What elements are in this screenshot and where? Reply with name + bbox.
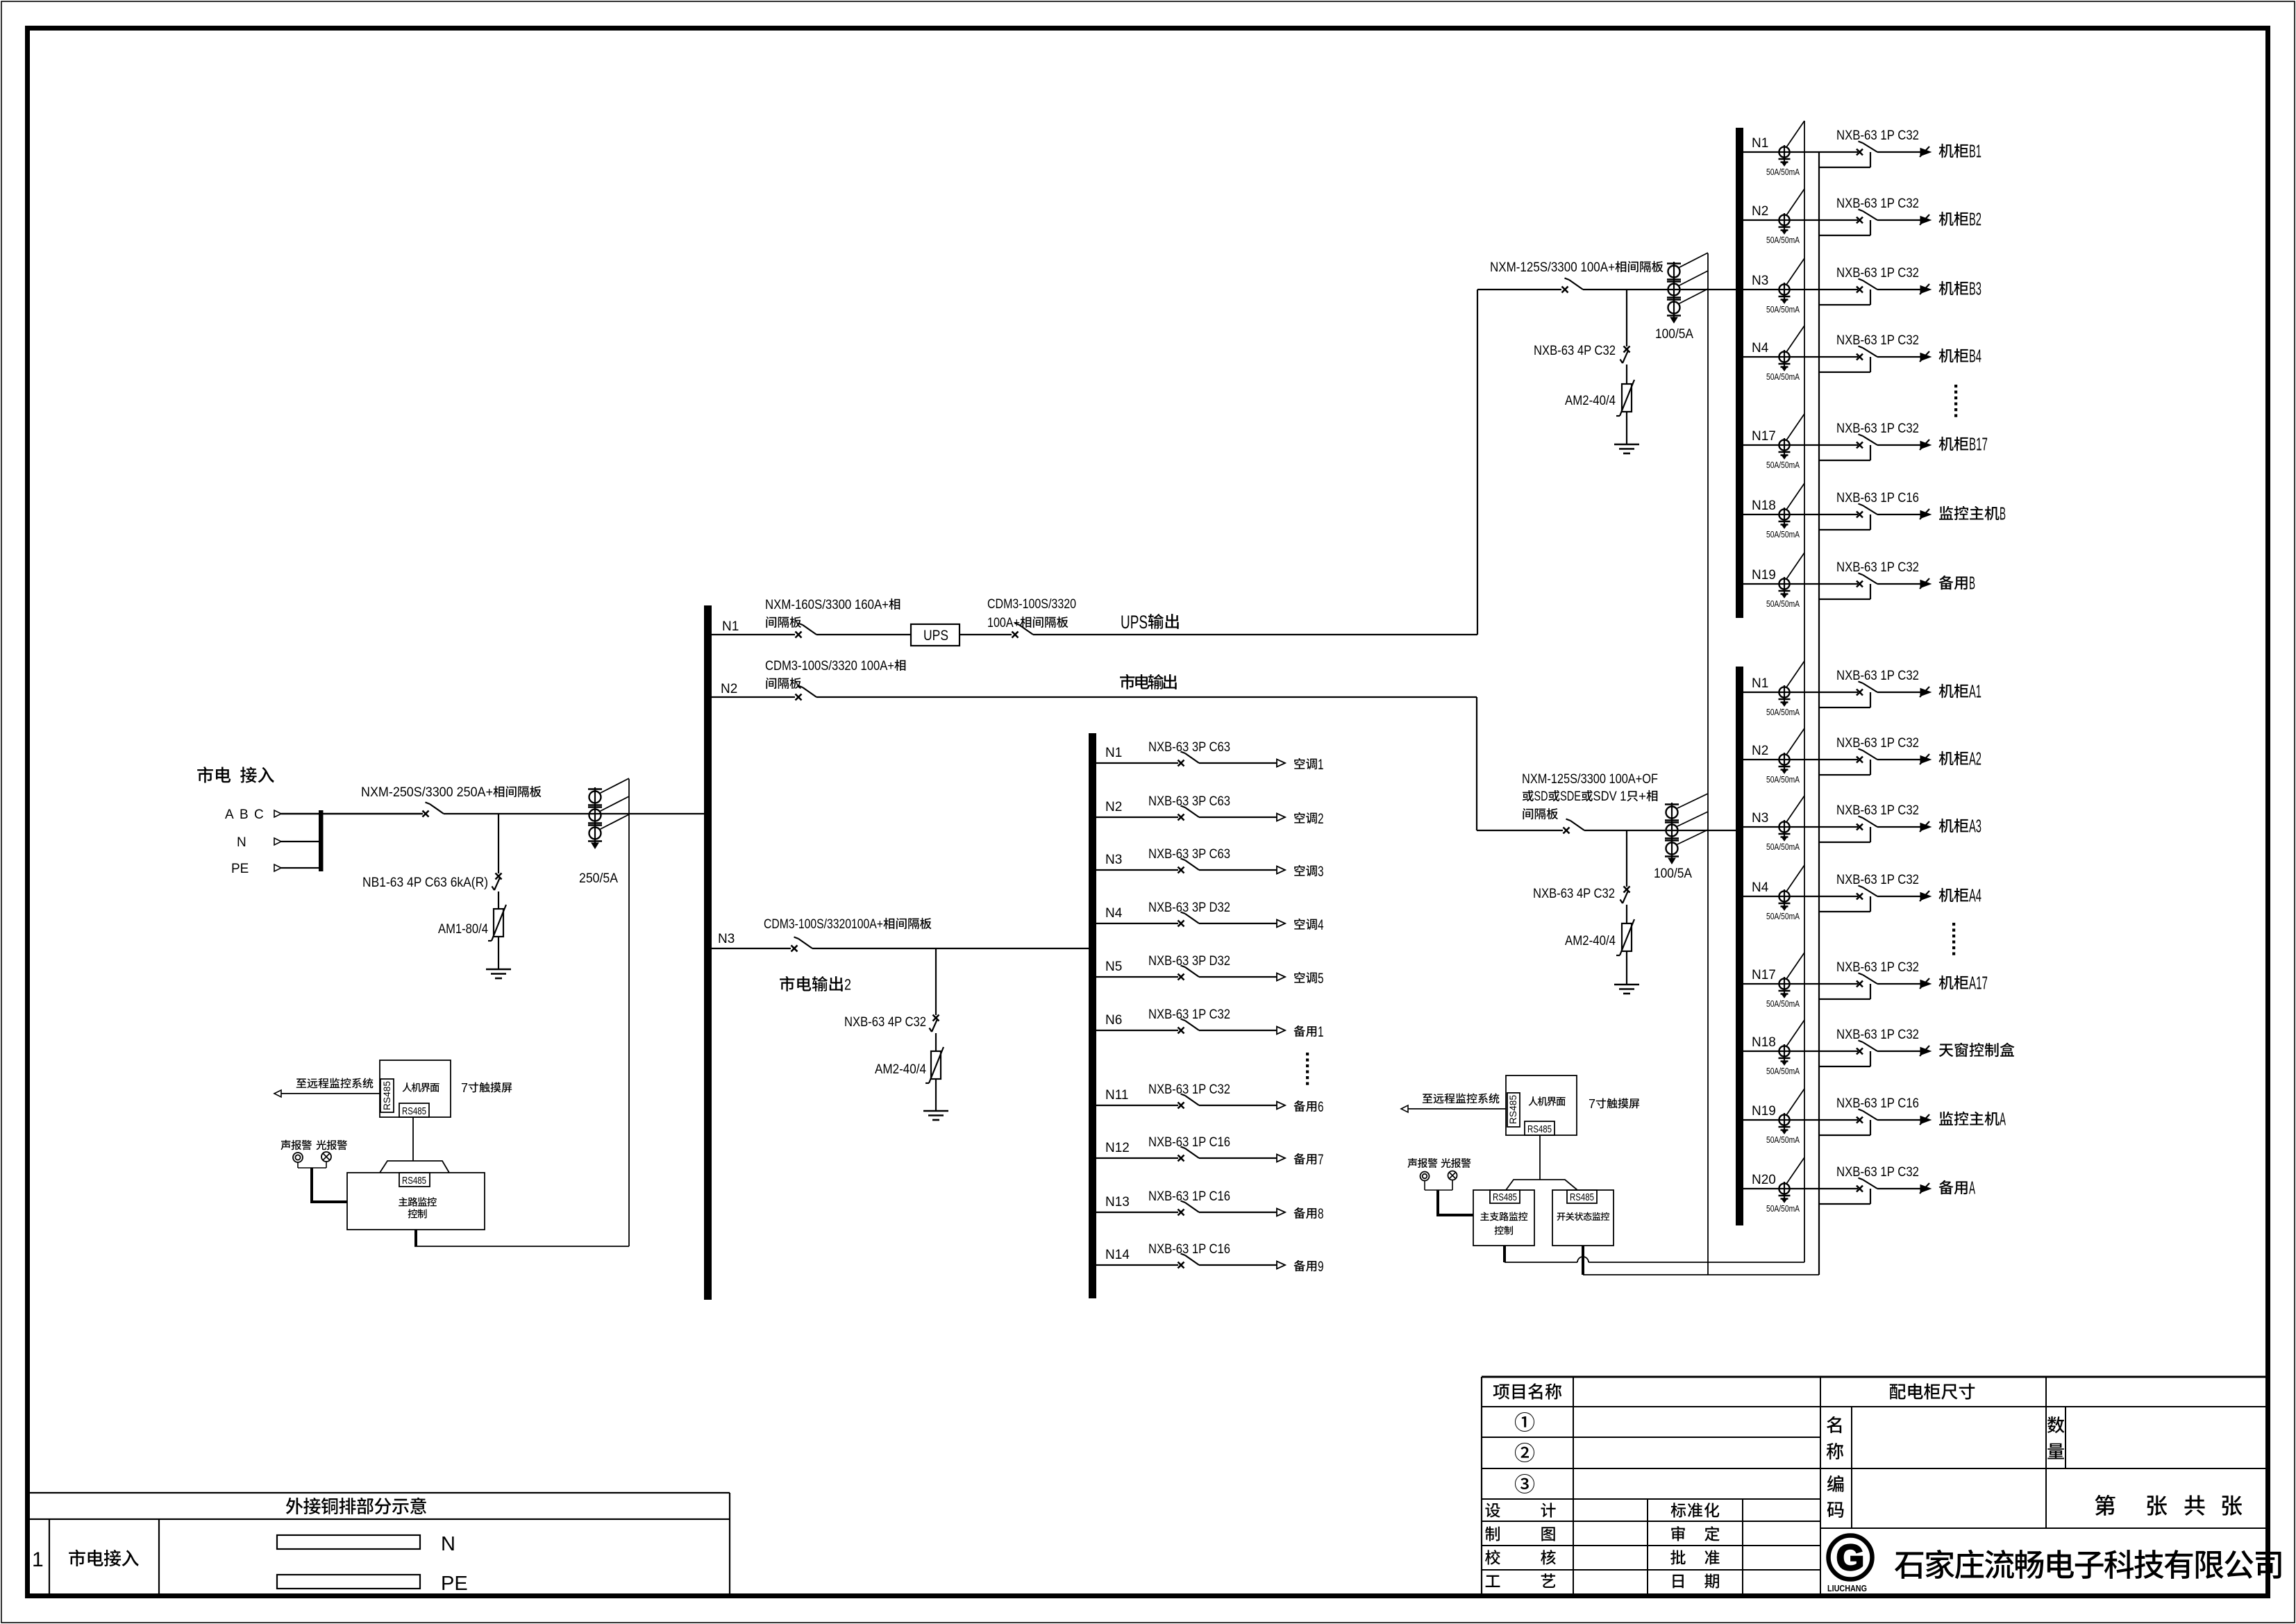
svg-text:N4: N4 [1752, 880, 1769, 895]
branch A N19 wire [1743, 1119, 1858, 1121]
wire B surge branch down [1626, 290, 1627, 346]
RCD sensor A N18 50A/50mA [1779, 1046, 1789, 1056]
svg-text:50A/50mA: 50A/50mA [1766, 1135, 1800, 1145]
svg-text:NXB-63 4P C32: NXB-63 4P C32 [1534, 344, 1616, 358]
svg-text:UPS: UPS [923, 628, 948, 644]
branch N4 mid wire [1096, 923, 1178, 924]
label 主路监控 [399, 1197, 408, 1206]
breaker B N1 NXB-63 1P C32 [1857, 149, 1863, 156]
svg-text:N12: N12 [1105, 1141, 1130, 1155]
breaker A N17 NXB-63 1P C32 [1857, 981, 1863, 987]
RCD sensor B N1 50A/50mA [1779, 147, 1789, 157]
branch N14 mid wire [1096, 1264, 1178, 1266]
svg-text:NXB-63 1P C32: NXB-63 1P C32 [1836, 560, 1919, 575]
svg-text:NXB-63 1P C32: NXB-63 1P C32 [1836, 736, 1919, 751]
neutral jog B N3 [1819, 304, 1870, 305]
breaker B N3 NXB-63 1P C32 [1857, 287, 1863, 293]
wire HMI down right [1539, 1135, 1541, 1180]
neutral jog B N17 [1819, 460, 1870, 461]
wire breaker to load N2 [1199, 817, 1277, 818]
breaker N2 mid NXB-63 3P C63 [1178, 814, 1184, 821]
load arrow B N3 [1920, 286, 1931, 294]
branch B N4 wire [1743, 356, 1858, 358]
alarm trunk wire right thick [1436, 1190, 1439, 1215]
wire arrester to ground A [1626, 951, 1627, 985]
branch A N18 wire [1743, 1050, 1858, 1052]
wire to arrester [498, 891, 499, 909]
light alarm symbol right [1448, 1171, 1457, 1180]
trip status vertical line [1804, 121, 1805, 1262]
svg-text:N1: N1 [1752, 136, 1768, 151]
load arrow N2 [1277, 814, 1285, 821]
label circled 3 [1515, 1474, 1534, 1493]
svg-text:A1: A1 [1969, 681, 1981, 702]
breaker NXB-63 4P C32 B [1624, 346, 1630, 353]
svg-text:B3: B3 [1969, 278, 1981, 299]
breaker A N1 NXB-63 1P C32 [1857, 689, 1863, 696]
RCD sensor B N19 50A/50mA [1779, 578, 1789, 589]
load arrow B N17 [1920, 442, 1931, 449]
wire breaker to load B N2 [1877, 219, 1920, 221]
svg-text:9: 9 [1318, 1259, 1324, 1275]
wire breaker to load B N18 [1877, 514, 1920, 515]
arrow to remote right [1401, 1105, 1408, 1112]
svg-text:50A/50mA: 50A/50mA [1766, 1066, 1800, 1076]
breaker A feed NXM-125S/3300 100A [1564, 828, 1570, 834]
branch A N17 wire [1743, 983, 1858, 985]
svg-text:A17: A17 [1969, 973, 1988, 994]
RS485 port vertical right [1507, 1093, 1520, 1127]
branch N3 mid wire [1096, 869, 1178, 871]
neutral jog B N19 [1819, 598, 1870, 600]
svg-text:NXM-125S/3300 100A+OF: NXM-125S/3300 100A+OF [1522, 772, 1658, 787]
RCD sensor B N18 50A/50mA [1779, 509, 1789, 519]
svg-text:N18: N18 [1752, 1035, 1776, 1050]
svg-text:100/5A: 100/5A [1655, 327, 1693, 342]
label 市电输出 [1120, 674, 1134, 689]
breaker A N4 NXB-63 1P C32 [1857, 894, 1863, 900]
ellipsis B bus [1954, 385, 1957, 387]
svg-text:50A/50mA: 50A/50mA [1766, 599, 1800, 609]
load arrow A N17 [1920, 980, 1931, 988]
sound alarm symbol right [1421, 1172, 1430, 1181]
label 控制 right [1495, 1225, 1504, 1234]
breaker N13 mid NXB-63 1P C16 [1178, 1209, 1184, 1216]
label 第 张 共 张 [2095, 1495, 2115, 1516]
branch A N20 wire [1743, 1188, 1858, 1189]
load arrow A N20 [1920, 1185, 1931, 1193]
wire breaker to load A N4 [1877, 896, 1920, 897]
svg-text:RS485: RS485 [381, 1081, 392, 1110]
svg-text:SD: SD [1534, 789, 1548, 804]
breaker NXB-63 4P C32 A [1624, 887, 1630, 893]
wire breaker to load N13 [1199, 1212, 1277, 1213]
ground mid surge [923, 1110, 948, 1112]
svg-text:NXB-63 4P C32: NXB-63 4P C32 [844, 1015, 926, 1030]
svg-text:NXB-63 1P C32: NXB-63 1P C32 [1148, 1007, 1230, 1022]
title block outer [1482, 1376, 2266, 1378]
RS485 port 开关状态 box [1567, 1190, 1597, 1203]
svg-text:AM1-80/4: AM1-80/4 [438, 922, 488, 937]
branch N13 mid wire [1096, 1212, 1178, 1213]
svg-text:N19: N19 [1752, 1104, 1776, 1119]
label load 备用A [1939, 1180, 1954, 1195]
connector trapezoid right [1506, 1180, 1577, 1190]
label 审定 [1671, 1526, 1684, 1541]
controller to CT monitor wire left [414, 1246, 629, 1247]
label load 机柜B1 [1939, 144, 1954, 158]
title block horizontals [1482, 1406, 2266, 1407]
svg-text:7: 7 [1318, 1152, 1324, 1168]
RCD sensor A N2 50A/50mA [1779, 754, 1789, 764]
breaker B N2 NXB-63 1P C32 [1857, 217, 1863, 224]
svg-text:A: A [2000, 1109, 2006, 1130]
alarm wires left [297, 1162, 299, 1168]
sound alarm symbol left [293, 1153, 303, 1162]
svg-text:N2: N2 [721, 682, 737, 696]
svg-text:N17: N17 [1752, 429, 1776, 444]
branch N12 mid wire [1096, 1157, 1178, 1159]
svg-text:50A/50mA: 50A/50mA [1766, 842, 1800, 852]
CT 100/5A A [1671, 803, 1673, 858]
alarm wires right [1424, 1180, 1425, 1190]
svg-text:NXM-125S/3300 100A+: NXM-125S/3300 100A+ [1490, 260, 1615, 275]
label 间隔板 N2 [766, 678, 776, 689]
breaker QF main NXM-250S/3300 250A [423, 811, 429, 817]
label 或SD或SDE或SDV 1只+相 [1523, 790, 1534, 801]
svg-text:50A/50mA: 50A/50mA [1766, 1204, 1800, 1214]
svg-text:A: A [225, 807, 234, 822]
svg-text:50A/50mA: 50A/50mA [1766, 167, 1800, 177]
load arrow N13 [1277, 1209, 1285, 1216]
wire mains output to riser [816, 696, 1477, 698]
RCD sensor A N20 50A/50mA [1779, 1183, 1789, 1194]
svg-text:RS485: RS485 [402, 1105, 426, 1117]
breaker N11 mid NXB-63 1P C32 [1178, 1103, 1184, 1109]
ellipsis mid bus [1306, 1053, 1309, 1055]
surge arrester AM1-80/4 [494, 909, 503, 937]
wire breaker to load A N19 [1877, 1119, 1920, 1121]
logo LIUCHANG circle [1829, 1536, 1872, 1580]
wire phase to breaker [281, 813, 423, 815]
svg-text:NXB-63 1P C32: NXB-63 1P C32 [1836, 1028, 1919, 1042]
input arrow PE [274, 864, 281, 871]
svg-text:NXB-63 1P C32: NXB-63 1P C32 [1836, 669, 1919, 683]
RCD sensor B N4 50A/50mA [1779, 351, 1789, 362]
load arrow A N18 [1920, 1048, 1931, 1055]
svg-text:50A/50mA: 50A/50mA [1766, 708, 1800, 717]
svg-text:AM2-40/4: AM2-40/4 [1565, 394, 1616, 408]
svg-text:N2: N2 [1752, 204, 1768, 219]
breaker N6 mid NXB-63 1P C32 [1178, 1028, 1184, 1034]
load arrow N3 [1277, 867, 1285, 874]
label 项目名称 [1493, 1384, 1510, 1399]
label 校核 [1485, 1550, 1500, 1565]
neutral vertical line [1818, 152, 1820, 1275]
svg-text:RS485: RS485 [1493, 1192, 1517, 1203]
breaker N1 mid NXB-63 3P C63 [1178, 760, 1184, 767]
RCD sensor A N17 50A/50mA [1779, 978, 1789, 989]
svg-text:RS485: RS485 [1507, 1095, 1518, 1124]
wire breaker to load B N3 [1877, 289, 1920, 290]
surge arrester AM2-40/4 A [1622, 923, 1632, 951]
svg-text:CDM3-100S/3320100A+: CDM3-100S/3320100A+ [764, 917, 883, 932]
svg-text:NXM-160S/3300 160A+: NXM-160S/3300 160A+ [765, 598, 889, 612]
wire breaker to load N1 [1199, 762, 1277, 764]
breaker N12 mid NXB-63 1P C16 [1178, 1155, 1184, 1162]
wire N to bus stub [281, 841, 319, 842]
svg-text:G: G [1836, 1538, 1864, 1578]
svg-text:NXB-63 1P C32: NXB-63 1P C32 [1836, 333, 1919, 348]
svg-text:NXB-63 3P D32: NXB-63 3P D32 [1148, 954, 1230, 969]
branch N11 mid wire [1096, 1105, 1178, 1106]
controller output stub left [414, 1230, 417, 1246]
busbar PE symbol [277, 1575, 420, 1589]
breaker B feed NXM-125S/3300 100A [1562, 287, 1568, 293]
input bus stub bar [319, 810, 324, 871]
svg-text:100A+: 100A+ [987, 616, 1020, 630]
svg-text:+: + [1639, 789, 1646, 804]
label 间隔板 N1 [766, 617, 776, 628]
svg-text:RS485: RS485 [1527, 1123, 1552, 1135]
surge arrester AM2-40/4 mid [931, 1051, 941, 1079]
RCD sensor B N3 50A/50mA [1779, 284, 1789, 294]
breaker N1 NXM-160S [796, 632, 802, 638]
branch N5 mid wire [1096, 976, 1178, 978]
label 名称 vertical [1827, 1416, 1841, 1433]
wire breaker to load B N4 [1877, 356, 1920, 358]
svg-text:50A/50mA: 50A/50mA [1766, 372, 1800, 382]
label 工艺 [1486, 1575, 1500, 1587]
neutral jog B N1 [1819, 167, 1870, 168]
wire breaker to UPS [816, 634, 911, 635]
label company 石家庄流畅电子科技有限公司 [1895, 1552, 1923, 1579]
wire to remote right [1408, 1108, 1506, 1110]
load arrow B N4 [1920, 353, 1931, 361]
svg-text:N3: N3 [1752, 811, 1768, 826]
breaker B N19 NXB-63 1P C32 [1857, 581, 1863, 587]
breaker NXB-63 4P C32 mid [933, 1015, 939, 1021]
busbar N symbol [277, 1535, 420, 1549]
load arrow A N4 [1920, 893, 1931, 901]
svg-text:SDV 1: SDV 1 [1593, 789, 1627, 804]
label load 空调5 [1294, 972, 1305, 983]
label load 机柜A1 [1939, 684, 1954, 698]
svg-text:N11: N11 [1105, 1088, 1128, 1103]
svg-text:NXB-63 1P C32: NXB-63 1P C32 [1836, 873, 1919, 887]
wire riser to A breaker [1477, 830, 1563, 831]
label load 备用6 [1293, 1100, 1305, 1112]
wire PE to bus stub [281, 867, 319, 869]
svg-text:5: 5 [1318, 971, 1324, 987]
label load 空调3 [1294, 865, 1305, 876]
wire breaker to load A N2 [1877, 759, 1920, 760]
branch A N4 wire [1743, 896, 1858, 897]
breaker B N17 NXB-63 1P C32 [1857, 442, 1863, 449]
label load 监控主机A [1939, 1112, 1953, 1125]
label load 空调4 [1294, 919, 1305, 930]
breaker B N4 NXB-63 1P C32 [1857, 354, 1863, 360]
neutral jog A N19 [1819, 1135, 1870, 1136]
table 外接铜排部分示意 frame [30, 1492, 730, 1493]
monitor bus wire y1818 with hop [1505, 1262, 1577, 1263]
surge arrester AM2-40/4 B [1622, 384, 1632, 412]
svg-text:NXB-63 3P C63: NXB-63 3P C63 [1148, 794, 1230, 809]
breaker A N2 NXB-63 1P C32 [1857, 757, 1863, 763]
breaker N14 mid NXB-63 1P C16 [1178, 1262, 1184, 1269]
wire N2 to breaker [712, 696, 795, 698]
svg-text:N3: N3 [1105, 853, 1122, 867]
svg-text:2: 2 [844, 976, 851, 993]
breaker A N3 NXB-63 1P C32 [1857, 824, 1863, 830]
svg-text:N6: N6 [1105, 1013, 1122, 1028]
label 市电输出2 [780, 976, 794, 991]
svg-text:N20: N20 [1752, 1173, 1776, 1187]
UPS box [911, 624, 960, 646]
branch B N17 wire [1743, 444, 1858, 446]
svg-text:NXB-63 1P C32: NXB-63 1P C32 [1836, 128, 1919, 143]
svg-text:NXB-63 1P C32: NXB-63 1P C32 [1836, 266, 1919, 281]
wire N3 to middle bus [812, 948, 1089, 949]
wire B breaker to bus via CT [1583, 289, 1736, 290]
svg-text:100/5A: 100/5A [1654, 867, 1692, 881]
label load 空调1 [1294, 758, 1305, 769]
svg-text:CDM3-100S/3320: CDM3-100S/3320 [987, 597, 1076, 612]
label load 备用B [1939, 576, 1954, 590]
branch B N2 wire [1743, 219, 1858, 221]
svg-text:50A/50mA: 50A/50mA [1766, 775, 1800, 785]
svg-text:A: A [1969, 1178, 1975, 1198]
load arrow N12 [1277, 1155, 1285, 1162]
label 开关状态监控 [1557, 1213, 1566, 1221]
wire breaker to load A N20 [1877, 1188, 1920, 1189]
svg-text:NXB-63 1P C16: NXB-63 1P C16 [1148, 1189, 1230, 1204]
breaker A N19 NXB-63 1P C16 [1857, 1117, 1863, 1123]
breaker A N18 NXB-63 1P C32 [1857, 1048, 1863, 1055]
svg-text:LIUCHANG: LIUCHANG [1827, 1584, 1867, 1593]
wire breaker to load N11 [1199, 1105, 1277, 1106]
svg-text:B2: B2 [1969, 209, 1981, 230]
ground B surge [1614, 444, 1639, 446]
breaker N1 CDM3-100S [1012, 632, 1019, 638]
load arrow N5 [1277, 973, 1285, 981]
svg-text:UPS: UPS [1121, 612, 1148, 633]
main monitor stub right [1503, 1246, 1506, 1262]
svg-text:N2: N2 [1752, 744, 1768, 758]
svg-text:7: 7 [1589, 1097, 1595, 1111]
branch N1 mid wire [1096, 762, 1178, 764]
neutral jog A N3 [1819, 842, 1870, 843]
svg-text:50A/50mA: 50A/50mA [1766, 912, 1800, 921]
svg-text:NXB-63 1P C16: NXB-63 1P C16 [1148, 1242, 1230, 1257]
label 批准 [1670, 1550, 1686, 1564]
label load 机柜A4 [1939, 888, 1954, 902]
monitor box 开关状态监控 [1552, 1190, 1614, 1246]
svg-text:RS485: RS485 [402, 1175, 426, 1187]
RCD sensor A N4 50A/50mA [1779, 891, 1789, 901]
svg-text:RS485: RS485 [1570, 1192, 1594, 1203]
input arrow N [274, 838, 281, 845]
label 制图 [1485, 1526, 1500, 1541]
wire arrester to ground mid [935, 1079, 937, 1111]
svg-text:NXB-63 1P C16: NXB-63 1P C16 [1148, 1135, 1230, 1150]
light alarm symbol left [321, 1152, 331, 1162]
svg-text:NXB-63 3P C63: NXB-63 3P C63 [1148, 740, 1230, 755]
label 市电接入 table [69, 1550, 85, 1566]
label 控制 left [408, 1209, 418, 1218]
label load 监控主机B [1939, 506, 1953, 520]
svg-text:N13: N13 [1105, 1195, 1130, 1209]
CT 100/5A B [1673, 262, 1675, 317]
branch A N1 wire [1743, 692, 1858, 693]
controller box 主路监控控制 [347, 1173, 485, 1230]
svg-text:50A/50mA: 50A/50mA [1766, 460, 1800, 470]
wire breaker to load B N17 [1877, 444, 1920, 446]
svg-text:NXM-250S/3300 250A+: NXM-250S/3300 250A+ [361, 785, 493, 800]
branch A N3 wire [1743, 826, 1858, 828]
wire breaker to load B N1 [1877, 151, 1920, 153]
branch A N2 wire [1743, 759, 1858, 760]
label 日期 [1673, 1575, 1684, 1589]
RCD sensor B N2 50A/50mA [1779, 215, 1789, 225]
RCD sensor A N19 50A/50mA [1779, 1114, 1789, 1125]
wire breaker to load A N1 [1877, 692, 1920, 693]
svg-text:B17: B17 [1969, 434, 1988, 455]
wire to arrester B [1626, 365, 1627, 384]
breaker NB1-63 4P C63 6kA(R) [496, 873, 502, 880]
label load 备用1 [1293, 1026, 1305, 1037]
wire breaker to load A N3 [1877, 826, 1920, 828]
label load 备用9 [1293, 1260, 1305, 1271]
svg-text:50A/50mA: 50A/50mA [1766, 530, 1800, 539]
label 外接铜排部分示意 [286, 1498, 303, 1514]
neutral jog A N20 [1819, 1203, 1870, 1205]
svg-text:7: 7 [461, 1081, 468, 1095]
load arrow A N3 [1920, 823, 1931, 831]
label load 机柜A3 [1939, 819, 1954, 832]
wire breaker to main bus [444, 813, 704, 814]
svg-text:N4: N4 [1752, 341, 1769, 355]
svg-text:NXB-63 1P C32: NXB-63 1P C32 [1836, 1165, 1919, 1180]
label load 机柜B2 [1939, 212, 1954, 226]
load arrow B N1 [1920, 149, 1931, 156]
svg-text:N3: N3 [718, 932, 735, 946]
svg-text:50A/50mA: 50A/50mA [1766, 235, 1800, 245]
label load 机柜B17 [1939, 437, 1954, 451]
svg-text:NXB-63 1P C32: NXB-63 1P C32 [1148, 1082, 1230, 1097]
RS485 port 主支路 box [1490, 1190, 1520, 1203]
HMI box 人机界面 right [1506, 1075, 1577, 1135]
wire surge branch down [498, 814, 499, 873]
breaker N3 mid NXB-63 3P C63 [1178, 867, 1184, 873]
wire UPS to breaker CDM3 [960, 634, 1012, 635]
svg-text:NXB-63 1P C32: NXB-63 1P C32 [1836, 421, 1919, 436]
wire CT secondary monitor line [628, 779, 630, 1246]
svg-text:PE: PE [231, 862, 249, 876]
RS485 port vertical left [380, 1079, 394, 1112]
svg-text:1: 1 [1318, 1024, 1324, 1040]
svg-text:A2: A2 [1969, 748, 1981, 769]
cabinet A bus bar [1736, 667, 1743, 1225]
neutral jog B N18 [1819, 529, 1870, 530]
svg-text:N: N [441, 1533, 455, 1555]
svg-text:N4: N4 [1105, 906, 1123, 921]
load arrow N11 [1277, 1102, 1285, 1110]
breaker B N18 NXB-63 1P C16 [1857, 512, 1863, 518]
label 间隔板 A [1523, 808, 1533, 819]
svg-text:3: 3 [1318, 864, 1324, 880]
neutral jog A N2 [1819, 774, 1870, 776]
